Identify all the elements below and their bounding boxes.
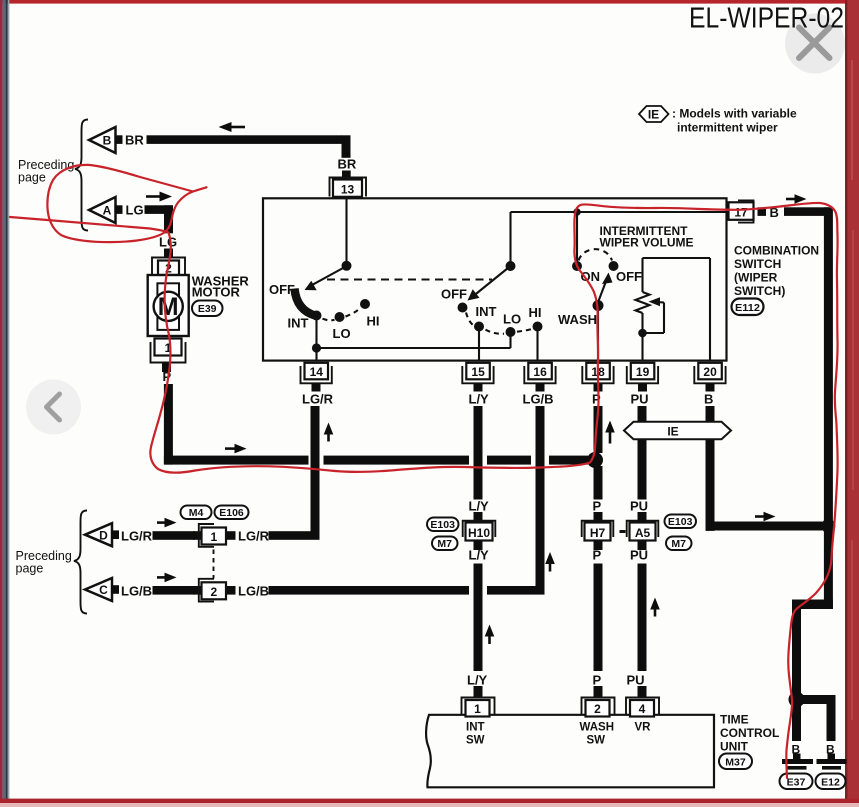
connector triangle B: [89, 127, 123, 153]
wire 20 B vertical: [706, 406, 715, 531]
svg-text:SW: SW: [587, 735, 606, 747]
svg-text:IE: IE: [648, 108, 659, 122]
svg-text:: Models with variable: : Models with variable: [672, 107, 797, 121]
svg-text:M7: M7: [671, 538, 686, 550]
red annotation trace path: [10, 203, 838, 778]
resistor wiper arm arrow: [647, 297, 665, 333]
svg-text:A5: A5: [635, 526, 651, 540]
INT contact dot switch2: [474, 322, 484, 332]
inline connector 1 (M4/E106): [193, 524, 236, 547]
svg-text:4: 4: [639, 702, 646, 716]
svg-text:1: 1: [210, 530, 217, 544]
svg-text:M37: M37: [725, 756, 746, 768]
HI contact dot switch1: [360, 299, 370, 309]
legend text: [672, 107, 797, 135]
top red page border: [0, 0, 859, 4]
dashed link connector 1 to 2: [213, 550, 215, 579]
svg-text:E103: E103: [430, 519, 455, 531]
stub below A5: [638, 541, 647, 551]
svg-text:page: page: [18, 171, 46, 185]
svg-text:L/Y: L/Y: [469, 499, 490, 514]
dashed mechanical link between switches: [327, 279, 492, 281]
arrow right above B wire: [786, 194, 807, 204]
arrow up beside wire 18: [605, 421, 615, 444]
wire junction to connector 19: [641, 333, 643, 361]
wire into resistor: [641, 258, 643, 292]
wire to ground E37: [792, 704, 801, 742]
inline connector 2 (M4/E106): [193, 579, 236, 602]
wire LG/B left segment: [153, 586, 196, 595]
wire BR horizontal: [147, 135, 343, 144]
bus wire P horizontal segment 1: [164, 456, 309, 465]
svg-text:L/Y: L/Y: [467, 673, 488, 688]
stub into H10: [474, 512, 483, 523]
wire resistor to junction: [641, 313, 643, 333]
svg-text:OFF: OFF: [616, 269, 642, 284]
svg-text:BR: BR: [125, 133, 144, 148]
svg-text:H10: H10: [468, 526, 490, 540]
svg-text:E112: E112: [735, 302, 760, 314]
TCU connector 2: [582, 698, 615, 717]
wire INT1 down to junction: [315, 316, 317, 349]
svg-text:M4: M4: [189, 507, 204, 519]
time control unit box: [426, 715, 714, 788]
wire rail down to connector 20: [709, 258, 711, 361]
previous page chevron button: [26, 380, 81, 435]
wire B vertical to ground junction: [792, 609, 801, 696]
wire junction to connector 14: [315, 348, 317, 361]
svg-text:P: P: [593, 499, 602, 514]
svg-text:TIME: TIME: [720, 713, 749, 727]
label oval M7 left: [432, 537, 458, 551]
svg-text:D: D: [99, 528, 108, 542]
close button X: [785, 14, 845, 74]
wire LG/B horizontal segment 1: [269, 586, 470, 595]
stub into TCU connector 1: [474, 686, 483, 698]
combination switch box E112: [263, 198, 727, 360]
arrow up beside wire 16 corner: [545, 552, 555, 572]
feed wire along box top to connector 17: [511, 211, 727, 213]
svg-text:B: B: [103, 134, 112, 148]
wire WASH down to connector 18: [597, 306, 599, 361]
svg-text:13: 13: [341, 182, 355, 196]
label WASHER MOTOR: [192, 274, 250, 300]
switch 1 pivot node: [342, 261, 352, 271]
svg-text:SWITCH: SWITCH: [734, 257, 781, 271]
wire B jog left: [792, 600, 833, 610]
svg-text:14: 14: [310, 365, 324, 379]
svg-text:COMBINATION: COMBINATION: [734, 244, 819, 258]
connector 16: [524, 363, 555, 392]
volume switch arm with arrowhead: [599, 273, 613, 302]
svg-text:LG: LG: [159, 235, 177, 250]
TCU connector 1: [462, 698, 495, 717]
connector 20: [694, 363, 725, 392]
wire 18 P vertical lower: [594, 564, 603, 672]
volume switch OFF contact dot: [609, 261, 619, 271]
svg-text:19: 19: [636, 365, 650, 379]
svg-text:INT: INT: [466, 722, 485, 734]
svg-text:1: 1: [474, 702, 481, 716]
svg-text:16: 16: [533, 365, 547, 379]
junction node bus to wire 18: [587, 452, 603, 468]
bottom red page border: [0, 799, 859, 803]
washer motor connector pin 1: [151, 339, 186, 373]
junction node above connector 14: [312, 343, 321, 352]
resistor zigzag: [636, 292, 650, 313]
label oval E112: [732, 299, 764, 316]
svg-text:VR: VR: [635, 722, 652, 734]
junction node B wires: [821, 519, 835, 533]
wire INT2 down to connector 15: [478, 327, 480, 361]
svg-text:L/Y: L/Y: [469, 392, 490, 407]
svg-text:LG/B: LG/B: [121, 583, 152, 598]
INT contact dot switch1: [312, 311, 322, 321]
HI contact dot switch2: [533, 322, 543, 332]
svg-text:CONTROL: CONTROL: [720, 726, 779, 740]
arrow right on bus: [225, 444, 247, 454]
wire down to switch 2 pivot: [509, 212, 511, 262]
wire 15 L/Y vertical lower: [474, 564, 483, 672]
svg-text:INT: INT: [476, 304, 497, 319]
svg-text:A: A: [103, 204, 112, 218]
wire branch to ground E12: [800, 695, 835, 704]
connector A5: [627, 521, 659, 541]
svg-text:WIPER VOLUME: WIPER VOLUME: [600, 236, 694, 250]
svg-text:E37: E37: [787, 776, 806, 788]
label oval E12: [816, 774, 846, 790]
svg-text:PU: PU: [630, 548, 648, 563]
svg-text:E103: E103: [668, 516, 693, 528]
wire B from 17 horizontal: [784, 207, 829, 216]
svg-text:OFF: OFF: [441, 287, 467, 302]
svg-text:SW: SW: [466, 735, 485, 747]
wire LG/R to wire 14: [269, 531, 320, 540]
LO contact dot switch2: [506, 327, 516, 337]
svg-text:E106: E106: [219, 507, 244, 519]
label oval M7 right: [666, 537, 692, 551]
svg-text:LO: LO: [333, 326, 351, 341]
svg-text:EL-WIPER-02: EL-WIPER-02: [689, 3, 844, 35]
washer motor connector pin 2: [152, 258, 185, 276]
svg-text:WASH: WASH: [558, 312, 597, 327]
ground symbol E37: [782, 754, 813, 770]
connector triangle C: [85, 578, 119, 601]
arrow right above LG/B wire: [157, 573, 177, 583]
wire 14 LG/R vertical: [311, 406, 320, 540]
connector 17: [729, 200, 754, 222]
arrow right above LG/R wire: [157, 518, 177, 528]
label oval E37: [780, 774, 813, 790]
arrow right above LG corner: [146, 192, 172, 202]
svg-text:M7: M7: [437, 538, 452, 550]
dash between H7 and A5: [620, 530, 626, 533]
arrow left on BR wire: [219, 122, 246, 132]
connector H10: [463, 521, 496, 541]
svg-text:HI: HI: [367, 314, 380, 329]
arrow up beside wire 14: [324, 423, 334, 442]
svg-text:SWITCH): SWITCH): [734, 284, 785, 298]
stub into H7: [594, 512, 603, 523]
junction node on feed wire: [573, 208, 580, 215]
arrow up beside wire 15: [485, 625, 495, 645]
label oval E103 left: [427, 518, 459, 532]
svg-text:H7: H7: [590, 526, 606, 540]
junction node ground split: [789, 692, 805, 708]
label oval E106: [215, 506, 249, 520]
svg-text:C: C: [99, 583, 108, 597]
switch 2 arm with arrowhead: [468, 268, 509, 301]
stub into TCU connector 4: [638, 686, 647, 698]
svg-text:PU: PU: [631, 392, 649, 407]
svg-text:UNIT: UNIT: [720, 740, 749, 754]
wire 18 P vertical to junction: [594, 406, 603, 453]
connector triangle D: [85, 523, 119, 546]
label oval M37: [719, 754, 752, 770]
connector 13: [330, 178, 367, 197]
switch 1 arm with arrowhead: [305, 268, 345, 291]
svg-text:intermittent wiper: intermittent wiper: [677, 121, 778, 135]
wire 18 P vertical below junction: [594, 466, 603, 500]
svg-text:PU: PU: [627, 673, 645, 688]
bus wire P horizontal segment 3: [487, 456, 531, 465]
svg-text:HI: HI: [529, 305, 542, 320]
preceding page label (bottom): [16, 549, 72, 576]
label oval M4: [181, 506, 212, 520]
junction node resistor bottom: [638, 329, 647, 338]
svg-text:2: 2: [594, 702, 601, 716]
stub below H7: [594, 541, 603, 551]
label INTERMITTENT WIPER VOLUME: [600, 224, 694, 250]
svg-text:page: page: [16, 562, 44, 576]
wire 20 B corner horizontal: [706, 522, 823, 531]
dashed contact arcs switch2: [466, 313, 533, 334]
stub into TCU connector 2: [594, 686, 603, 698]
svg-text:(WIPER: (WIPER: [734, 271, 778, 285]
svg-text:INT: INT: [288, 316, 309, 331]
connector H7: [582, 521, 614, 541]
variable resistor (wiper volume) top rail: [643, 257, 711, 259]
arrow right on B wire: [755, 512, 776, 522]
wire 16 LG/B vertical: [536, 406, 545, 586]
connector 14: [301, 363, 332, 392]
connector 18: [582, 363, 613, 392]
stub from connector 17: [758, 207, 767, 216]
svg-text:LO: LO: [503, 312, 521, 327]
ground symbol E12: [817, 754, 847, 770]
wire from 13 to switch pivot: [345, 199, 347, 262]
wire stub into washer connector 2: [164, 249, 173, 258]
svg-text:LG: LG: [126, 203, 144, 218]
svg-text:L/Y: L/Y: [469, 548, 490, 563]
volume switch ON contact dot: [572, 261, 582, 271]
wire LO2 down: [509, 332, 511, 348]
LO contact dot switch1: [335, 312, 345, 322]
wire LG/B horizontal segment 2 to wire 16: [487, 586, 545, 595]
WASH contact dot: [593, 300, 604, 311]
wire B right vertical: [824, 207, 833, 609]
wire 19 PU vertical upper: [638, 406, 647, 500]
stub below H10: [474, 541, 483, 551]
svg-text:MOTOR: MOTOR: [192, 285, 241, 300]
label oval E39: [192, 301, 223, 317]
svg-text:LG/R: LG/R: [302, 392, 334, 407]
svg-text:BR: BR: [338, 157, 357, 172]
svg-text:20: 20: [703, 365, 717, 379]
svg-text:WASH: WASH: [580, 722, 615, 734]
wire BR corner down to connector 13: [342, 135, 351, 158]
connector 19: [627, 363, 658, 392]
label INT SW: [466, 722, 485, 747]
label COMBINATION SWITCH (WIPER SWITCH): [734, 244, 819, 299]
stub into A5: [638, 512, 647, 523]
wire 15 L/Y vertical upper: [474, 406, 483, 500]
svg-text:LG/B: LG/B: [238, 583, 269, 598]
label TIME CONTROL UNIT: [720, 713, 779, 754]
preceding page label (top): [18, 158, 74, 185]
connector triangle A: [89, 197, 123, 223]
svg-text:P: P: [593, 673, 602, 688]
bus wire P horizontal segment 4: [549, 456, 588, 465]
svg-text:2: 2: [210, 585, 217, 599]
red annotation circled loop: [47, 165, 206, 242]
connector 15: [462, 363, 493, 392]
wire down to volume switch ON: [576, 212, 578, 262]
svg-text:15: 15: [471, 365, 485, 379]
wire HI2 down to connector 16: [536, 327, 538, 361]
bus wire P horizontal segment 2: [324, 456, 470, 465]
svg-text:P: P: [593, 548, 602, 563]
wire junction to LO2: [317, 347, 511, 349]
left page border strip: [0, 0, 3, 807]
right page border strip: [845, 0, 859, 807]
IE hexagon flag on wires: [624, 422, 731, 439]
dashed arc volume switch: [579, 249, 613, 260]
wire P from washer motor down: [164, 384, 173, 465]
arrow up beside wire 19: [650, 598, 660, 617]
brace top: [75, 120, 88, 231]
legend IE hexagon symbol: [639, 106, 669, 122]
svg-text:B: B: [704, 392, 713, 407]
wire LG/R left segment: [153, 531, 196, 540]
svg-text:LG/R: LG/R: [121, 529, 153, 544]
svg-text:17: 17: [734, 205, 748, 219]
svg-text:LG/B: LG/B: [523, 392, 554, 407]
wire LG corner down: [164, 205, 173, 233]
OFF contact dot switch2: [458, 303, 468, 313]
wire LG horizontal: [145, 205, 174, 214]
switch 2 pivot node: [506, 261, 516, 271]
brace bottom: [74, 511, 87, 614]
label oval E103 right: [665, 515, 697, 529]
svg-text:E39: E39: [198, 303, 217, 315]
label WASH SW: [580, 722, 615, 747]
svg-text:IE: IE: [667, 424, 678, 438]
TCU connector 4: [626, 698, 659, 717]
washer motor M (E39): [148, 275, 189, 336]
svg-text:PU: PU: [630, 499, 648, 514]
svg-text:E12: E12: [821, 776, 840, 788]
dashed contact arc switch1: [323, 308, 361, 321]
svg-text:M: M: [158, 293, 179, 321]
thick OFF-INT contact arc: [295, 289, 317, 316]
stub into connector 13: [342, 171, 351, 179]
svg-text:LG/R: LG/R: [238, 529, 270, 544]
wire 19 PU vertical lower: [638, 564, 647, 672]
